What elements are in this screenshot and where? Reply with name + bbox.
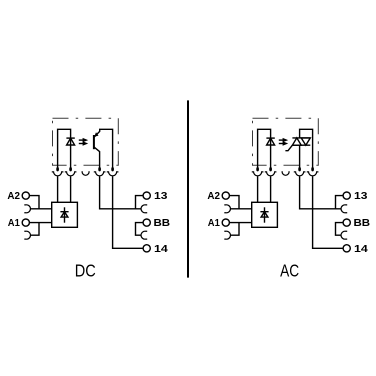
terminal 14 circle, DC	[143, 245, 150, 252]
light arrows (optocoupler), DC	[79, 138, 88, 146]
wire: socket1 down to input box, DC	[57, 176, 59, 202]
svg-text:A1: A1	[208, 217, 220, 229]
socket contact 2 (pin+arc), AC	[265, 167, 277, 176]
terminal BB circle, DC	[143, 219, 150, 226]
wire: A2 to junction, DC	[29, 196, 39, 209]
svg-text:A1: A1	[8, 217, 20, 229]
socket contact 4 (pin+arc), AC	[294, 167, 306, 176]
wire: socket5 down and right to terminal 14, DC	[113, 176, 144, 248]
socket arc below A2, DC	[24, 205, 30, 213]
svg-text:13: 13	[354, 190, 368, 202]
socket arc below BB, DC	[141, 231, 147, 239]
socket contact 1 (pin+arc), AC	[252, 167, 264, 176]
bracket wire from BB to its arc, AC	[336, 223, 344, 236]
diode D4 inside input box, AC	[260, 207, 268, 222]
socket arc below A2, AC	[224, 205, 230, 213]
socket contact 3 (empty arc), DC	[82, 171, 89, 175]
triac T1 left triangle (pointing up), AC	[292, 138, 301, 145]
wire: socket2 down to input box, AC	[270, 176, 272, 202]
input module box B1, DC	[52, 202, 78, 227]
terminal A1 circle, DC	[22, 219, 29, 226]
wire: A2 arc to input box, DC	[30, 208, 51, 210]
wire: LED loop (socket1 up, top horizontal, down to socket2), DC	[58, 129, 71, 168]
wire: A1 junction down to lower arc, AC	[230, 223, 239, 236]
socket contact 1 (pin+arc), DC	[52, 167, 64, 176]
phototransistor Q1 collector arrowhead, DC	[94, 132, 98, 136]
LED D3 (optocoupler emitter diode), AC	[266, 138, 274, 145]
divider line between DC and AC sections	[187, 100, 189, 277]
socket arc below A1, DC	[24, 231, 30, 239]
socket contact 5 (pin+arc), DC	[107, 167, 119, 176]
phototransistor Q1 base bar, DC	[93, 135, 95, 149]
terminal 14 circle, AC	[343, 245, 350, 252]
wire: socket4 down and right to contact 13 bracket, DC	[100, 176, 136, 208]
phototransistor Q1 emitter wire (down to socket4), DC	[94, 147, 100, 169]
socket contact 2 (pin+arc), DC	[65, 167, 77, 176]
phototransistor Q1 collector wire (up to top rail, down to socket5), DC	[94, 129, 113, 168]
wire: A2 to junction, AC	[229, 196, 239, 209]
wire: A2 arc to input box, AC	[230, 208, 251, 210]
bracket wire from 13 to its arc, DC	[136, 196, 144, 209]
terminal A2 circle, AC	[222, 192, 229, 199]
bracket wire from 13 to its arc, AC	[336, 196, 344, 209]
socket arc below 13, AC	[341, 205, 347, 213]
wire: socket2 down to input box, DC	[70, 176, 72, 202]
terminal 13 circle, DC	[143, 192, 150, 199]
socket contact 3 (empty arc), AC	[282, 171, 289, 175]
socket arc below 13, DC	[141, 205, 147, 213]
socket arc below BB, AC	[341, 231, 347, 239]
svg-text:AC: AC	[280, 261, 299, 281]
triac T1 top rail wire (socket4 up, over to socket5), AC	[300, 129, 313, 168]
socket contact 5 (pin+arc), AC	[307, 167, 319, 176]
terminal BB circle, AC	[343, 219, 350, 226]
triac T1 top bar, AC	[292, 137, 310, 139]
relay enclosure (dash-dot outline), DC	[53, 118, 119, 165]
light arrows (optocoupler), AC	[279, 138, 288, 146]
svg-text:BB: BB	[154, 217, 171, 229]
svg-text:14: 14	[354, 243, 368, 255]
wire: A1 to input box, AC	[229, 222, 251, 224]
diode D2 inside input box, DC	[60, 207, 68, 222]
wire: socket5 down and right to terminal 14, AC	[313, 176, 344, 248]
svg-text:A2: A2	[207, 190, 220, 202]
svg-text:DC: DC	[75, 261, 96, 281]
socket contact 4 (pin+arc), DC	[94, 167, 106, 176]
socket arc below A1, AC	[224, 231, 230, 239]
terminal 13 circle, AC	[343, 192, 350, 199]
wire: A1 to input box, DC	[29, 222, 51, 224]
wire: LED loop (socket1 up, top horizontal, down to socket2), AC	[258, 129, 271, 168]
wire: socket1 down to input box, AC	[257, 176, 259, 202]
wire: socket4 down and right to contact 13 bracket, AC	[300, 176, 336, 208]
triac T1 bottom bar, AC	[292, 144, 310, 146]
LED D1 (optocoupler emitter diode), DC	[66, 138, 74, 145]
wire: triac bottom to socket4, AC	[299, 145, 301, 168]
triac T1 gate lead, AC	[285, 145, 292, 151]
svg-text:A2: A2	[7, 190, 20, 202]
svg-text:BB: BB	[354, 217, 371, 229]
svg-text:14: 14	[154, 243, 168, 255]
terminal A1 circle, AC	[222, 219, 229, 226]
input module box B2, AC	[252, 202, 278, 227]
terminal A2 circle, DC	[22, 192, 29, 199]
relay enclosure (dash-dot outline), AC	[253, 118, 319, 165]
triac T1 right triangle (pointing down), AC	[301, 138, 310, 145]
bracket wire from BB to its arc, DC	[136, 223, 144, 236]
wire: A1 junction down to lower arc, DC	[30, 223, 39, 236]
svg-text:13: 13	[154, 190, 168, 202]
